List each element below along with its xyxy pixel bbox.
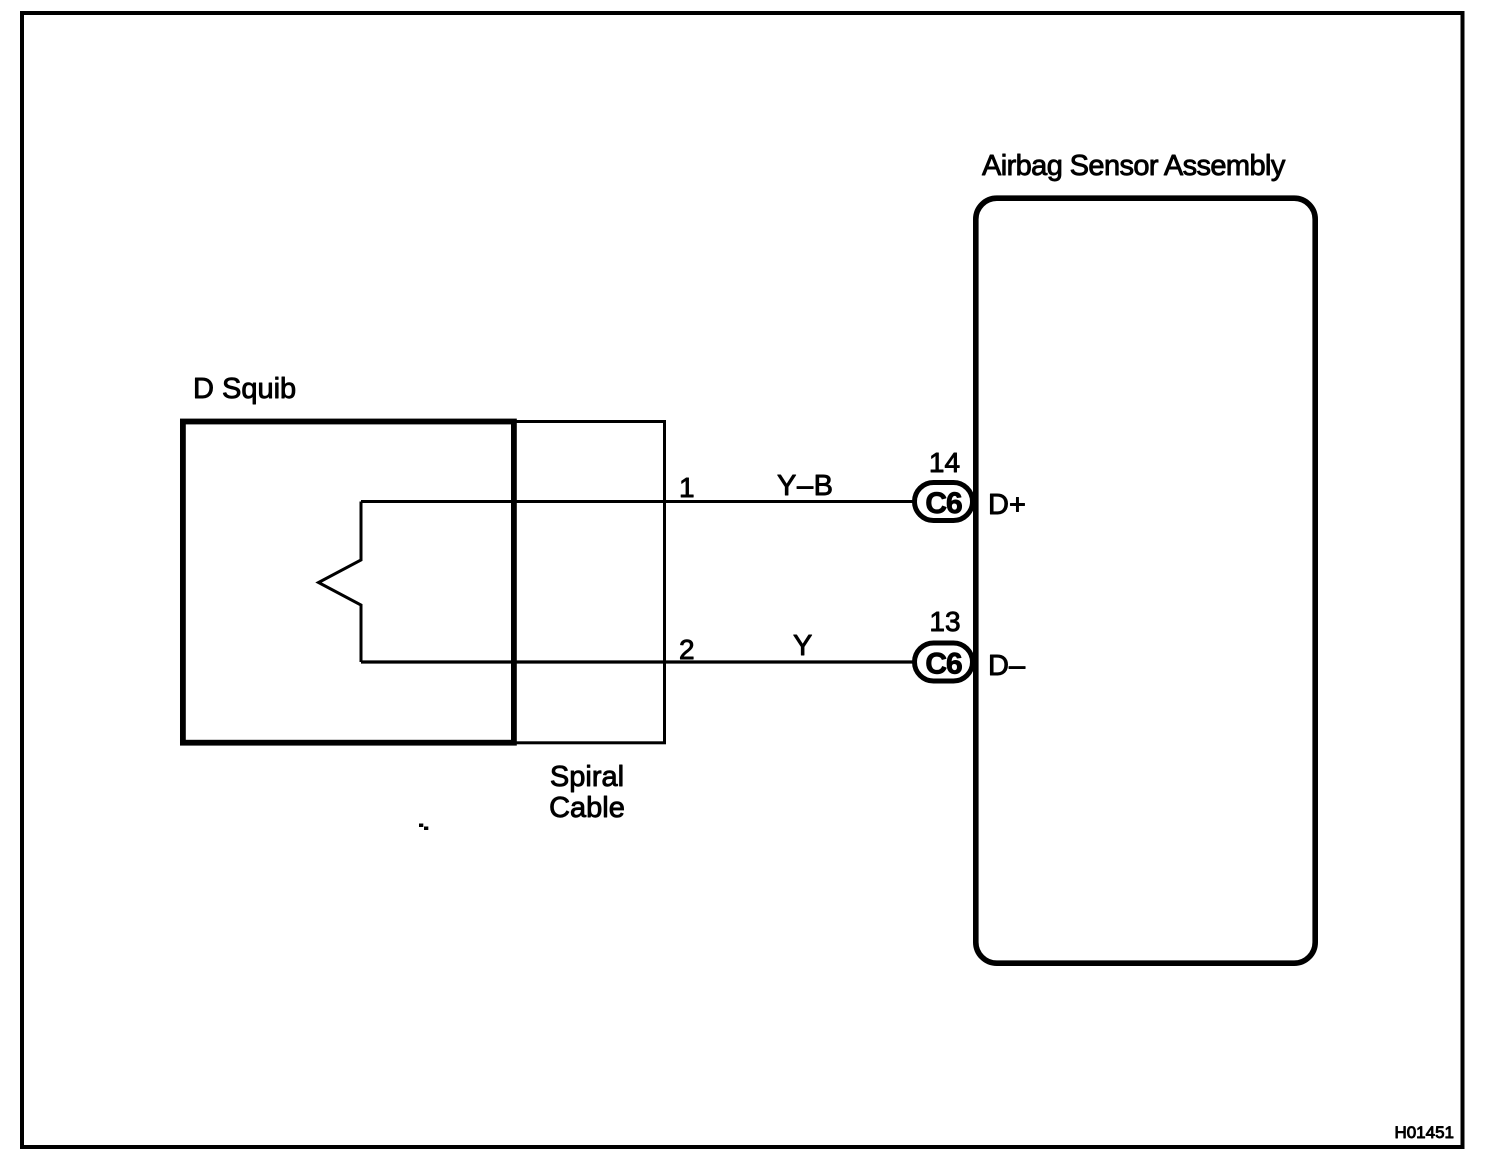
svg-text:Cable: Cable [549,792,625,824]
airbag sensor assembly box [976,198,1315,963]
svg-text:C6: C6 [925,487,962,520]
connector C6 pin 14 [915,483,973,521]
svg-text:Y–B: Y–B [777,470,834,502]
svg-text:14: 14 [929,447,960,478]
connector C6 pin 13 [915,643,973,681]
svg-text:1: 1 [679,472,695,503]
svg-text:13: 13 [929,606,960,637]
svg-text:Airbag Sensor Assembly: Airbag Sensor Assembly [982,150,1286,182]
svg-text:D Squib: D Squib [193,373,296,405]
wire 1 Y-B [361,500,915,503]
svg-text:D–: D– [988,650,1026,682]
svg-text:C6: C6 [925,648,962,681]
svg-text:Spiral: Spiral [550,761,624,793]
wire 2 Y [361,660,915,663]
svg-text:2: 2 [679,634,695,665]
svg-text:Y: Y [793,630,812,662]
svg-text:D+: D+ [988,489,1026,521]
svg-text:H01451: H01451 [1394,1123,1454,1142]
spiral cable box [514,422,665,743]
speck [419,824,423,828]
D Squib box [183,422,514,743]
squib element [319,502,362,663]
